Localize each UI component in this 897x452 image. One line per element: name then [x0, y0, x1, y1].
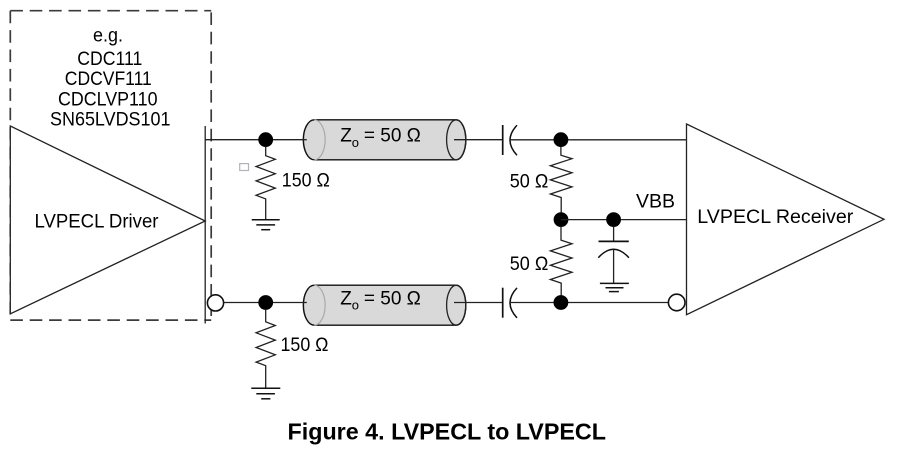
node junction dot (bottom rail left): [258, 295, 273, 310]
resistor R3 50 ohm (upper): [550, 147, 572, 213]
dashed box around driver devices: [10, 11, 211, 320]
svg-text:Z: Z: [340, 288, 352, 309]
node junction dot (top termination): [554, 132, 569, 147]
svg-text:o: o: [352, 297, 359, 312]
resistor R1 150 ohm (top): [256, 147, 275, 220]
driver inverted output bubble: [207, 295, 223, 311]
transmission line Z1 (top) body: [303, 120, 465, 160]
wire tick into Z2 left ellipse: [303, 302, 307, 304]
svg-text:VBB: VBB: [636, 192, 675, 213]
ground under R2: [251, 388, 280, 399]
transmission line Z2 (bottom) body: [303, 285, 465, 325]
svg-text:e.g.: e.g.: [93, 26, 123, 47]
wire from Z2 to coupling cap: [454, 302, 502, 304]
transmission line Z2 left ellipse inner arc: [314, 285, 325, 325]
bypass capacitor C3 curved plate: [598, 249, 629, 258]
svg-text:= 50 Ω: = 50 Ω: [364, 288, 421, 309]
driver output bus line: [204, 126, 206, 324]
svg-text:50 Ω: 50 Ω: [510, 172, 549, 193]
wire from C2 to receiver bubble: [510, 302, 668, 304]
node junction dot (VBB rail left): [554, 212, 569, 227]
svg-text:LVPECL Receiver: LVPECL Receiver: [697, 207, 854, 228]
svg-text:CDCVF111: CDCVF111: [65, 69, 152, 90]
label Zo = 50 ohm (bottom): [340, 288, 421, 312]
svg-text:50 Ω: 50 Ω: [510, 254, 549, 275]
svg-text:150 Ω: 150 Ω: [282, 171, 330, 192]
svg-text:LVPECL Driver: LVPECL Driver: [35, 211, 160, 232]
bypass capacitor C3 lead: [613, 227, 615, 242]
ground under R1: [252, 220, 280, 230]
svg-text:Z: Z: [340, 126, 352, 147]
receiver inverted input bubble: [668, 294, 685, 311]
resistor R4 50 ohm (lower): [550, 227, 572, 297]
transmission line Z1 right end ellipse: [447, 120, 466, 160]
svg-text:CDCLVP110: CDCLVP110: [58, 89, 158, 110]
bypass capacitor C3 flat plate: [599, 240, 629, 242]
wire top rail from driver to transmission line: [205, 139, 303, 141]
wire from Z1 to coupling cap: [454, 139, 502, 141]
coupling capacitor C1 (top) flat plate: [502, 125, 504, 155]
wire from C1 to receiver: [510, 139, 687, 141]
svg-text:150 Ω: 150 Ω: [281, 335, 329, 356]
svg-text:SN65LVDS101: SN65LVDS101: [50, 109, 171, 130]
resistor R2 150 ohm (bottom): [256, 309, 275, 388]
wire bottom rail from bubble to transmission line: [224, 302, 304, 304]
node junction dot (VBB cap): [606, 212, 621, 227]
small gray square artifact: [240, 164, 249, 171]
receiver triangle U2 LVPECL Receiver: [687, 124, 885, 315]
wire tick into Z1 left ellipse: [303, 139, 307, 141]
VBB rail wire: [561, 219, 687, 221]
coupling capacitor C1 curved plate: [510, 125, 517, 155]
svg-text:Figure 4. LVPECL to LVPECL: Figure 4. LVPECL to LVPECL: [288, 418, 607, 444]
label Zo = 50 ohm (top): [340, 126, 421, 150]
transmission line Z1 left ellipse inner arc: [314, 120, 325, 160]
svg-text:= 50 Ω: = 50 Ω: [364, 126, 421, 147]
coupling capacitor C2 (bottom) flat plate: [502, 288, 504, 318]
node junction dot (bottom termination): [554, 295, 569, 310]
bypass capacitor C3 lead to ground: [613, 250, 615, 283]
svg-text:o: o: [352, 135, 359, 150]
coupling capacitor C2 curved plate: [510, 288, 517, 318]
transmission line Z2 right end ellipse: [447, 285, 466, 325]
svg-text:CDC111: CDC111: [77, 49, 142, 70]
driver triangle U1 LVPECL Driver: [10, 126, 205, 314]
ground under C3: [600, 283, 629, 291]
node junction dot (top rail left): [258, 132, 273, 147]
